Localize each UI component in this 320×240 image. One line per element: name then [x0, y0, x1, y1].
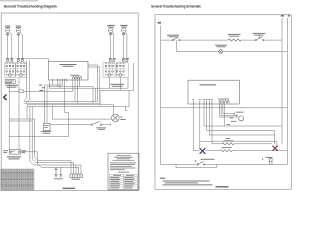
control box pins	[52, 79, 66, 81]
electronic oven control box (schematic)	[188, 80, 239, 104]
motor labels	[236, 111, 244, 114]
SU4 terminal mark	[122, 33, 125, 36]
control pin labels	[192, 98, 213, 101]
wire L1 line	[160, 26, 162, 165]
left switch label box	[5, 80, 15, 84]
navigation chevron	[4, 95, 7, 100]
note box table	[110, 174, 138, 189]
wire bus y91.5	[9, 79, 73, 91]
surface switch SW2 body	[16, 62, 26, 77]
wire bottom bundle	[34, 161, 81, 174]
wire bus y136.7	[9, 136, 68, 138]
SW1 internals	[5, 63, 14, 76]
surface switch SW4 body	[116, 62, 128, 77]
terminal smudges above right cluster	[109, 57, 112, 60]
SW4 internals	[116, 63, 125, 76]
left switch caption	[6, 85, 19, 86]
thermal switch side labels	[3, 149, 8, 152]
schematic part number	[216, 186, 229, 188]
door switch DS1	[91, 124, 92, 125]
label L1	[158, 22, 161, 24]
wire L2 line	[281, 18, 283, 144]
bake label2	[222, 146, 232, 149]
wire long y141.2	[200, 141, 276, 146]
door switch S1	[173, 39, 174, 40]
SU3 terminal mark	[109, 33, 112, 36]
wire bus y103.2	[24, 102, 100, 104]
ground wire label	[54, 168, 57, 171]
surface unit SU3	[109, 28, 113, 32]
left page frame	[1, 13, 138, 191]
wire bus y119 y121	[9, 119, 34, 121]
wire tag smudges	[39, 85, 42, 86]
SW2 internals	[16, 63, 25, 76]
thermal switch box	[9, 150, 21, 155]
wire bus y85	[45, 81, 63, 85]
wire bus y86.6	[47, 79, 93, 103]
oven light leads	[113, 105, 115, 115]
surface switch SW3 body	[103, 62, 115, 77]
S2 label	[253, 32, 266, 35]
wire y167.6	[176, 165, 217, 168]
wire door switch line y124.7	[50, 124, 111, 126]
bake element label	[228, 33, 241, 36]
label L2 N	[281, 15, 284, 17]
terminal labels above right switch cluster	[109, 60, 111, 62]
surface unit SU2	[16, 28, 20, 32]
wire left drop x9.2	[8, 92, 10, 150]
diagram part number	[63, 188, 76, 190]
failure mark red X	[273, 146, 278, 151]
electronic oven control box (diagram)	[48, 61, 88, 80]
oven light OL1	[112, 114, 120, 122]
control box connector P1	[73, 77, 82, 80]
wire lamp relay drops	[45, 85, 47, 123]
wire N line	[286, 18, 288, 165]
NOTE heading	[160, 178, 166, 179]
broil label	[224, 139, 234, 142]
control box label	[60, 64, 77, 65]
cropped header artifact	[0, 0, 38, 1]
wire right cluster side	[100, 63, 134, 105]
wire rung1	[161, 39, 282, 41]
wire left drop x19	[18, 92, 20, 150]
door lock motor	[239, 116, 244, 121]
surface unit SU1 label	[5, 25, 10, 28]
thermal fuse label	[266, 156, 273, 159]
control connector pins	[219, 101, 229, 104]
terminal labels above left switch cluster	[7, 60, 9, 62]
ground caption	[54, 177, 63, 180]
thermal fuse	[269, 161, 272, 165]
wire SU4 leads	[123, 32, 127, 60]
wire pin drops to bus	[49, 79, 77, 103]
ground symbol G2	[59, 167, 62, 177]
TOD label	[201, 158, 215, 161]
surface unit SU1	[6, 28, 10, 32]
wire SU3 leads	[110, 32, 114, 60]
wire connector drops to motor	[219, 103, 238, 126]
wire bus y106.7	[27, 106, 129, 108]
wire lamp branch	[177, 40, 288, 52]
svg-text:General Troubleshooting Schem: General Troubleshooting Schematic	[151, 4, 201, 8]
ground symbol G1	[55, 167, 58, 177]
surface unit SU4 label	[120, 25, 128, 26]
wire thermal out	[21, 152, 42, 168]
junction on lamp line	[103, 118, 106, 121]
surface unit SU2 label	[16, 25, 21, 28]
surface unit SU4	[122, 28, 126, 32]
terminal block TB1	[70, 174, 82, 178]
wire bus y101.3	[24, 100, 98, 102]
junction labels	[227, 123, 231, 126]
wiring legend table	[1, 169, 34, 190]
svg-text:General Troubleshooting Diagra: General Troubleshooting Diagram	[4, 4, 57, 8]
surface switch SW1 body	[5, 62, 15, 77]
failure mark blue X	[200, 148, 206, 154]
wire mid horizontals	[204, 126, 282, 144]
RIGHT PAGE	[158, 15, 290, 188]
note lines	[163, 180, 210, 183]
oven light caption	[120, 117, 122, 118]
SU1 terminal mark	[6, 33, 9, 36]
wire lamp line y119.1	[52, 105, 111, 119]
wire control feed	[22, 59, 49, 62]
control label	[200, 84, 217, 85]
wire SU2 leads	[18, 32, 22, 60]
wire bus y88.2	[49, 81, 128, 101]
door switch caption	[96, 126, 106, 129]
note table smudges	[110, 175, 135, 188]
thermal switch caption	[7, 156, 21, 157]
wire bus y104.8	[27, 104, 114, 106]
wire control to right cluster	[88, 65, 100, 103]
door switch S1 label	[167, 35, 179, 36]
note box header smudges	[110, 155, 136, 172]
wire left cluster drops	[9, 78, 19, 92]
wire bottom rung	[161, 164, 288, 166]
SW3 internals	[105, 63, 114, 76]
oven lamp relay caption	[41, 131, 51, 132]
right switch caption	[111, 84, 125, 85]
oven lamp relay box	[43, 123, 50, 130]
wire under box	[161, 107, 288, 109]
TOD switch bottom	[197, 164, 198, 165]
terminal block caption	[72, 178, 81, 181]
inline label on y91.5	[19, 90, 24, 93]
control pins	[193, 101, 212, 104]
wire right return	[125, 91, 129, 111]
bake element resistor	[228, 39, 241, 41]
bake element resistor2	[220, 150, 232, 152]
note box	[108, 153, 139, 190]
SU2 terminal mark	[17, 33, 20, 36]
broil element resistor	[222, 143, 234, 145]
terminal smudges above left cluster	[6, 57, 9, 60]
legend cell smudges	[1, 170, 33, 190]
bake element rung2	[205, 150, 287, 152]
wire SU1 leads	[8, 32, 12, 60]
surface unit SU3 label	[107, 25, 115, 26]
wire box drops	[193, 104, 212, 151]
page background	[0, 0, 300, 196]
oven light L	[219, 50, 223, 54]
wire cluster drops	[24, 61, 38, 166]
oven light label	[215, 44, 227, 47]
LEFT PAGE	[1, 25, 139, 190]
right page frame	[155, 15, 291, 190]
door lock motor terminals	[234, 113, 235, 114]
oven TOD switch S2	[255, 39, 256, 40]
broil element rung	[212, 143, 272, 145]
wire y112 branch	[64, 81, 68, 137]
